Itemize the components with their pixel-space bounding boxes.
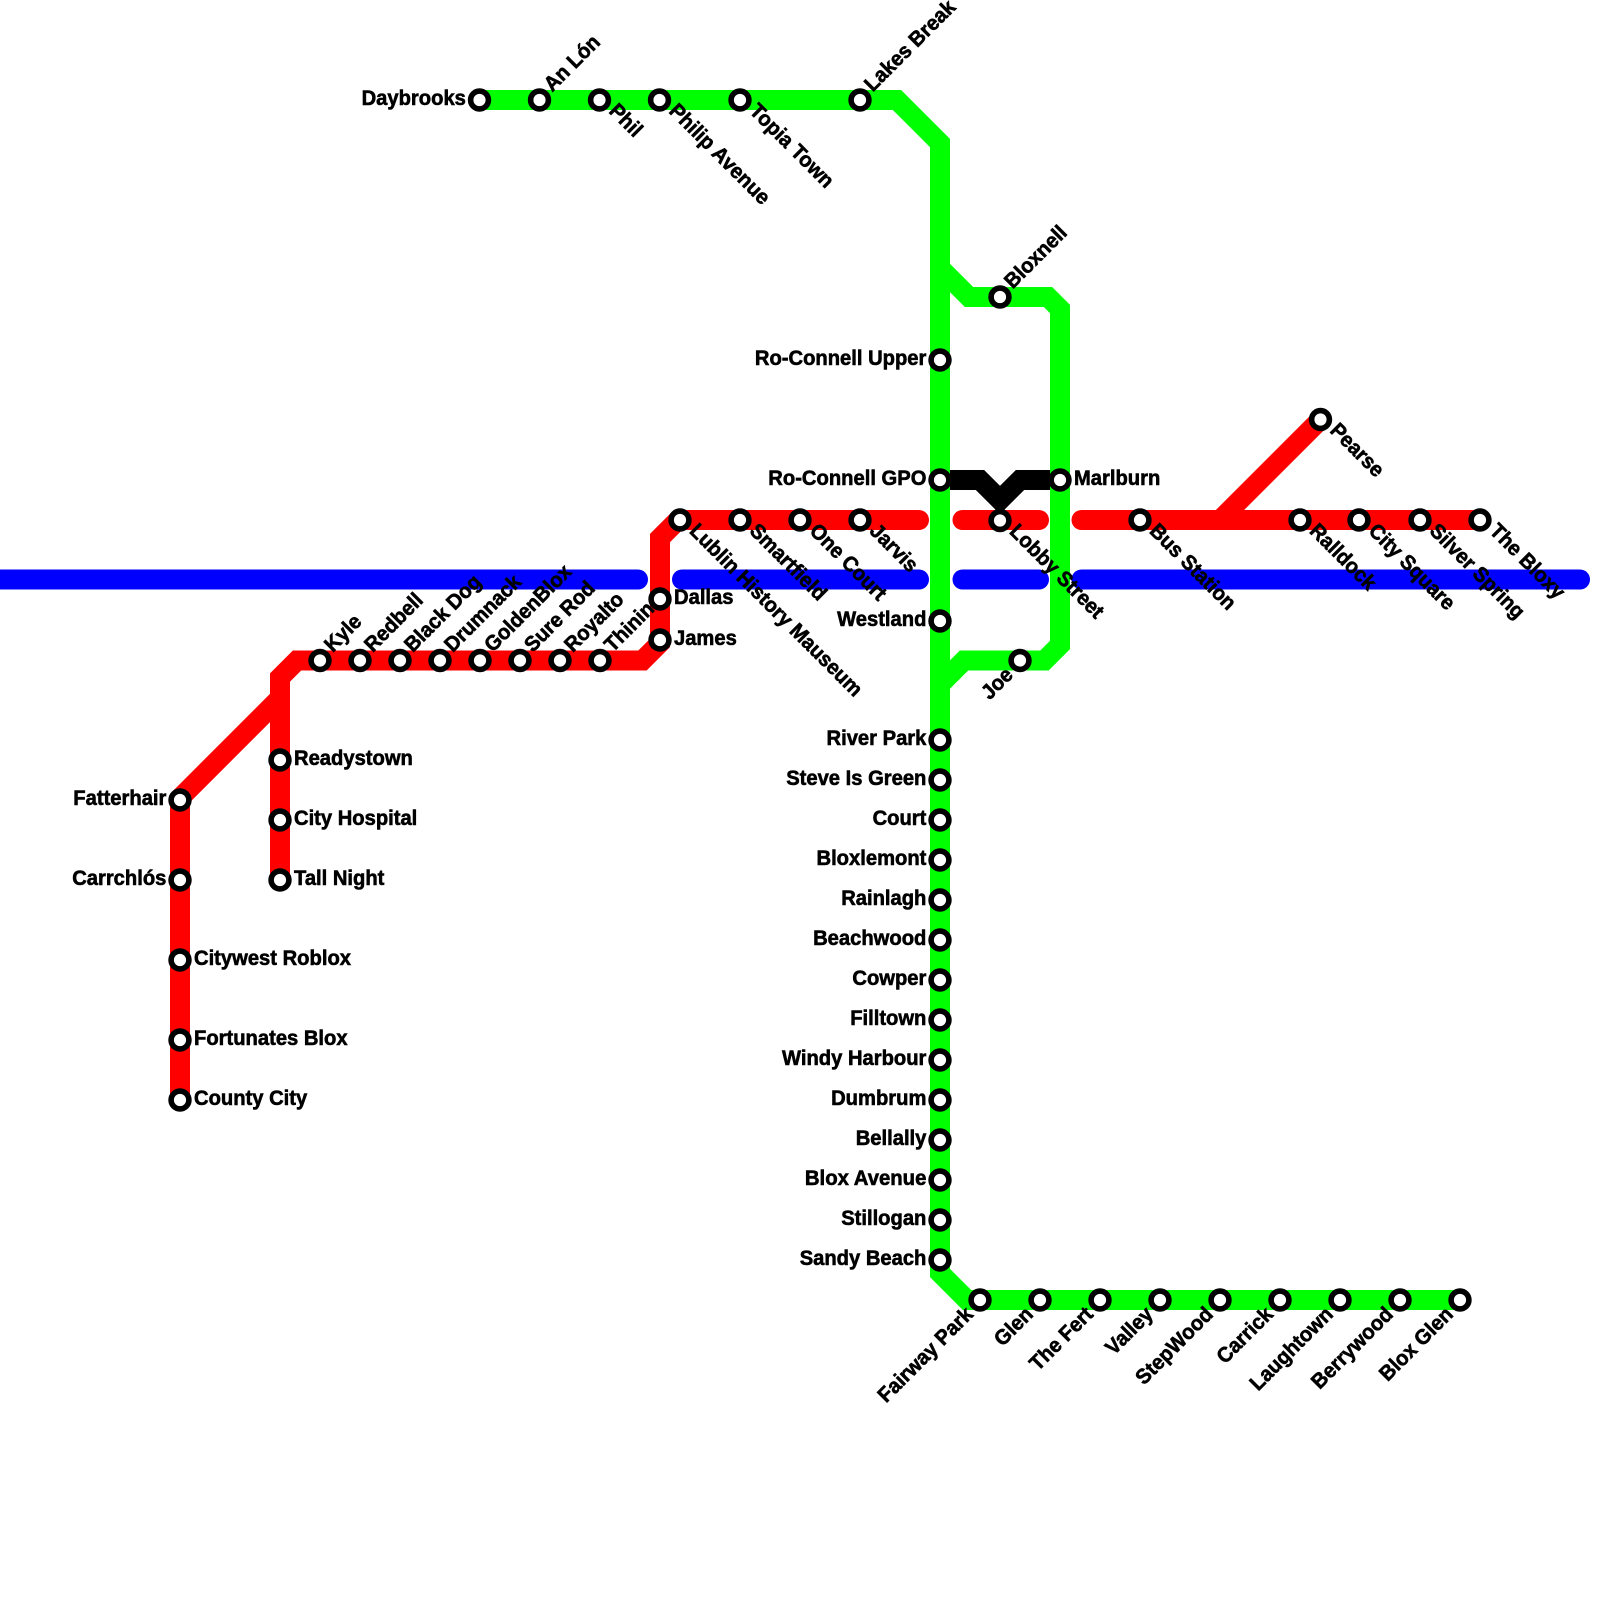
station Royalto marker: [551, 652, 569, 670]
svg-text:Rainlagh: Rainlagh: [841, 887, 926, 910]
station Valley marker: [1151, 1291, 1169, 1309]
station River Park marker: [931, 731, 949, 749]
station Bloxnell marker: [991, 288, 1009, 306]
station Philip Avenue marker: [651, 91, 669, 109]
station Lobby Street marker: [991, 512, 1009, 530]
black interchange link GPO-Lobby Street-Marlburn: [940, 480, 1060, 500]
svg-text:County City: County City: [194, 1087, 308, 1110]
station Bellally marker: [931, 1131, 949, 1149]
svg-text:Daybrooks: Daybrooks: [362, 87, 466, 110]
svg-text:City Hospital: City Hospital: [294, 807, 417, 830]
svg-text:Filltown: Filltown: [850, 1007, 926, 1030]
station Rainlagh marker: [931, 891, 949, 909]
svg-text:Tall Night: Tall Night: [294, 867, 384, 890]
station An Lón marker: [531, 91, 549, 109]
svg-text:Stillogan: Stillogan: [841, 1207, 926, 1230]
svg-text:Dallas: Dallas: [674, 586, 734, 609]
svg-text:Fatterhair: Fatterhair: [73, 787, 166, 810]
svg-text:Court: Court: [873, 807, 927, 830]
wire green loop via Bloxnell / Marlburn / Joe: [940, 268, 1060, 685]
svg-text:Beachwood: Beachwood: [813, 927, 926, 950]
svg-text:Dumbrum: Dumbrum: [831, 1087, 926, 1110]
station James marker: [651, 631, 669, 649]
svg-text:Marlburn: Marlburn: [1074, 467, 1160, 490]
station Fairway Park marker: [971, 1291, 989, 1309]
wire green main line (Daybrooks to Blox Glen): [480, 100, 1461, 1300]
station Ro-Connell Upper marker: [931, 351, 949, 369]
station Beachwood marker: [931, 931, 949, 949]
station Steve Is Green marker: [931, 771, 949, 789]
svg-text:River Park: River Park: [827, 727, 927, 750]
station Lakes Break marker: [851, 91, 869, 109]
station Glen marker: [1031, 1291, 1049, 1309]
svg-text:Windy Harbour: Windy Harbour: [782, 1047, 926, 1070]
wire red branch to Pearse: [1220, 420, 1321, 521]
station Sandy Beach marker: [931, 1251, 949, 1269]
station Filltown marker: [931, 1011, 949, 1029]
svg-text:Ro-Connell Upper: Ro-Connell Upper: [755, 347, 927, 370]
station City Square marker: [1350, 511, 1368, 529]
svg-text:Westland: Westland: [837, 608, 926, 631]
svg-text:Fortunates Blox: Fortunates Blox: [194, 1027, 348, 1050]
station Blox Avenue marker: [931, 1171, 949, 1189]
station Silver Spring marker: [1411, 511, 1429, 529]
station Pearse marker: [1312, 411, 1330, 429]
wire red line Lobby Street segment: [963, 510, 1040, 530]
station Stillogan marker: [931, 1211, 949, 1229]
station County City marker: [171, 1091, 189, 1109]
svg-text:Readystown: Readystown: [294, 747, 413, 770]
station Jarvis marker: [851, 511, 869, 529]
station Tall Night marker: [271, 871, 289, 889]
station Bloxlemont marker: [931, 851, 949, 869]
station Dallas marker: [651, 590, 669, 608]
wire blue line segment centre-east: [963, 570, 1040, 590]
station Joe marker: [1011, 652, 1029, 670]
station Citywest Roblox marker: [171, 951, 189, 969]
station The Bloxy marker: [1471, 511, 1489, 529]
svg-text:Bloxlemont: Bloxlemont: [817, 847, 927, 870]
svg-text:Ro-Connell GPO: Ro-Connell GPO: [768, 467, 926, 490]
station Ralldock marker: [1291, 511, 1309, 529]
svg-text:Cowper: Cowper: [852, 967, 926, 990]
station Bus Station marker: [1131, 511, 1149, 529]
station Windy Harbour marker: [931, 1051, 949, 1069]
station One Court marker: [791, 511, 809, 529]
station GoldenBlox marker: [471, 652, 489, 670]
station StepWood marker: [1211, 1291, 1229, 1309]
station Readystown marker: [271, 751, 289, 769]
svg-text:James: James: [674, 627, 737, 650]
station Smartfield marker: [731, 511, 749, 529]
station Blox Glen marker: [1451, 1291, 1469, 1309]
wire blue line segment west: [0, 570, 638, 590]
wire red line west segment (Jarvis to Tall Night): [280, 520, 919, 880]
station Black Dog marker: [391, 652, 409, 670]
station Westland marker: [931, 612, 949, 630]
station Phil marker: [591, 91, 609, 109]
svg-text:Citywest Roblox: Citywest Roblox: [194, 947, 351, 970]
station Carrchlós marker: [171, 871, 189, 889]
station The Fert marker: [1091, 1291, 1109, 1309]
wire blue line segment east: [1082, 570, 1581, 590]
station Ro-Connell GPO marker: [931, 471, 949, 489]
station Sure Rod marker: [511, 652, 529, 670]
station Cowper marker: [931, 971, 949, 989]
svg-text:Sandy Beach: Sandy Beach: [800, 1247, 927, 1270]
station City Hospital marker: [271, 811, 289, 829]
station Carrick marker: [1271, 1291, 1289, 1309]
svg-text:Steve Is Green: Steve Is Green: [786, 767, 926, 790]
wire red line east segment (The Bloxy to loop): [1082, 510, 1481, 530]
svg-text:Bellally: Bellally: [856, 1127, 927, 1150]
station Berrywood marker: [1391, 1291, 1409, 1309]
station Marlburn marker: [1051, 471, 1069, 489]
station Fatterhair marker: [171, 791, 189, 809]
station Thinin marker: [591, 652, 609, 670]
station Kyle marker: [311, 652, 329, 670]
station Fortunates Blox marker: [171, 1031, 189, 1049]
svg-text:Carrchlós: Carrchlós: [72, 867, 166, 890]
station Lublin History Mauseum marker: [671, 511, 689, 529]
station Laughtown marker: [1331, 1291, 1349, 1309]
station Topia Town marker: [731, 91, 749, 109]
station Redbell marker: [351, 652, 369, 670]
station Daybrooks marker: [471, 91, 489, 109]
station Drumnack marker: [431, 652, 449, 670]
wire blue line segment centre-west: [682, 570, 919, 590]
station Dumbrum marker: [931, 1091, 949, 1109]
station Court marker: [931, 811, 949, 829]
svg-text:Blox Avenue: Blox Avenue: [805, 1167, 927, 1190]
wire red branch to Fatterhair / County City: [180, 698, 280, 1100]
